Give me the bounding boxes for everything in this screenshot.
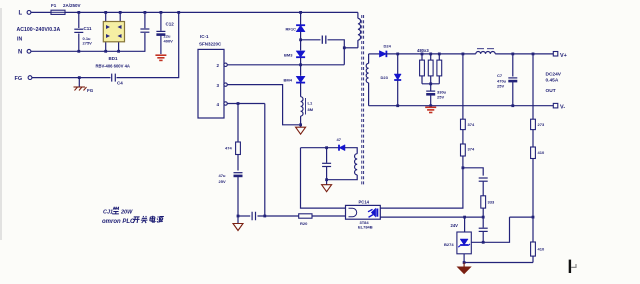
wire to drain: [300, 58, 302, 76]
svg-text:D24: D24: [384, 44, 392, 49]
svg-text:3: 3: [217, 83, 220, 88]
diode D47: [339, 145, 345, 151]
ground primary DC bus: [155, 54, 166, 56]
svg-text:474: 474: [225, 146, 232, 151]
wire FG line: [32, 77, 111, 79]
svg-text:8M: 8M: [308, 107, 314, 112]
transformer T1 aux: [355, 154, 358, 175]
ground primary return: [237, 216, 239, 224]
capacitor series bottom: [251, 212, 253, 221]
ground aux: [322, 185, 332, 192]
svg-text:RBV-406 600V 4A: RBV-406 600V 4A: [96, 64, 130, 69]
inductor L1: [301, 97, 303, 116]
svg-text:C7: C7: [497, 73, 503, 78]
wire vcc feedback branch: [264, 104, 266, 217]
svg-text:DC24V: DC24V: [546, 72, 562, 78]
wire primary bottom rail: [238, 215, 250, 217]
wire L1 bottom: [300, 116, 302, 127]
wire secondary bottom rail: [369, 105, 554, 107]
svg-text:374: 374: [468, 147, 475, 152]
svg-text:FG: FG: [15, 76, 23, 82]
svg-text:L: L: [19, 11, 23, 17]
svg-text:24V: 24V: [451, 223, 459, 228]
svg-text:275V: 275V: [83, 41, 93, 46]
svg-text:374: 374: [468, 122, 475, 127]
svg-text:20W: 20W: [120, 210, 133, 216]
svg-text:BM3: BM3: [284, 53, 293, 58]
edge artifact: [0, 8, 2, 240]
snubber capacitor: [301, 39, 321, 41]
capacitor comp2: [482, 217, 484, 227]
svg-text:IN: IN: [17, 37, 22, 43]
transformer T1 secondary: [368, 54, 370, 64]
wire primary coil bottom link: [344, 47, 358, 49]
svg-text:D23: D23: [381, 75, 389, 80]
wire pin4 feedback: [227, 103, 264, 105]
ground L1: [296, 127, 306, 134]
svg-text:B274: B274: [444, 242, 454, 247]
svg-text:omron PLC: omron PLC: [102, 219, 135, 225]
wire secondary top rail: [386, 53, 475, 55]
transformer core: [361, 15, 363, 186]
svg-text:410: 410: [538, 247, 545, 252]
divider right column: [532, 54, 534, 119]
bridge rectifier BD1: [105, 12, 107, 21]
svg-text:EL784B: EL784B: [358, 225, 373, 230]
resistor R20: [299, 214, 312, 218]
wire opto out bottom: [380, 216, 483, 218]
chassis ground FG: [78, 78, 80, 87]
svg-text:V-: V-: [560, 105, 565, 111]
wire N rail: [31, 50, 145, 52]
svg-text:400V: 400V: [164, 39, 174, 44]
resistor 374 lower: [461, 144, 466, 156]
output inductor L2: [476, 51, 495, 53]
svg-text:AC100~240V/0.3A: AC100~240V/0.3A: [17, 27, 61, 33]
wire pin2 to drain node: [227, 64, 344, 66]
diode RF1C: [300, 12, 302, 25]
svg-text:V+: V+: [560, 53, 567, 59]
resistor 273: [531, 119, 536, 129]
resistor 374 upper: [461, 119, 466, 129]
svg-text:L1: L1: [308, 101, 313, 106]
resistor R474: [237, 104, 239, 143]
svg-text:0.45A: 0.45A: [546, 78, 559, 84]
svg-text:R20: R20: [300, 221, 308, 226]
transformer T1 primary: [357, 12, 359, 18]
terminal V+: [553, 52, 558, 57]
wire pin3 to primary return: [227, 85, 299, 125]
cursor mark: [569, 260, 571, 273]
capacitor C4 Y-cap: [111, 74, 113, 82]
svg-text:25V: 25V: [219, 179, 226, 184]
capacitor C12 electrolytic: [160, 12, 162, 30]
svg-text:IC-1: IC-1: [200, 34, 209, 39]
svg-text:BM4: BM4: [284, 78, 293, 83]
compensation RC: [463, 168, 483, 176]
diode BM3: [296, 51, 305, 57]
svg-text:410: 410: [538, 150, 545, 155]
shunt regulator B274: [464, 217, 466, 232]
svg-text:2A/250V: 2A/250V: [63, 3, 81, 8]
diode BM4: [296, 76, 305, 82]
capacitor 330u: [430, 84, 432, 91]
wire regulator bottom: [464, 254, 533, 263]
resistor 410 upper: [531, 147, 536, 159]
svg-text:47u: 47u: [219, 173, 226, 178]
svg-text:FG: FG: [87, 88, 94, 93]
capacitor C13 film: [144, 12, 146, 28]
wire L rail: [65, 11, 358, 13]
zener D23: [397, 54, 399, 74]
svg-text:SFN3220C: SFN3220C: [199, 42, 222, 47]
svg-text:BD1: BD1: [109, 56, 118, 61]
capacitor 47u: [234, 172, 243, 174]
resistor 410 lower: [531, 242, 536, 256]
resistor 333: [481, 196, 486, 208]
svg-text:480x3: 480x3: [417, 48, 429, 53]
capacitor C11: [78, 12, 80, 28]
capacitor aux: [326, 148, 328, 163]
wire to L1: [300, 83, 302, 97]
wire opto feed divider: [462, 54, 464, 119]
svg-text:25V: 25V: [497, 84, 504, 89]
svg-text:2: 2: [217, 63, 220, 68]
svg-text:4: 4: [217, 102, 220, 107]
svg-text:CJ1: CJ1: [103, 210, 113, 216]
wire ref: [471, 217, 509, 242]
svg-text:C4: C4: [117, 81, 123, 86]
svg-text:47: 47: [337, 137, 342, 142]
svg-text:RF1C: RF1C: [286, 27, 297, 32]
ground secondary: [425, 106, 436, 108]
capacitor 470u output: [512, 54, 514, 77]
diode D24: [369, 53, 380, 55]
wire snubber node: [300, 32, 302, 51]
svg-text:C12: C12: [166, 22, 175, 27]
svg-text:C11: C11: [84, 26, 93, 31]
fuse F1: [31, 11, 51, 13]
svg-text:PC14: PC14: [359, 200, 370, 205]
svg-text:N: N: [18, 50, 22, 56]
svg-text:273: 273: [538, 122, 545, 127]
wire aux vcc: [301, 147, 339, 149]
svg-text:333: 333: [488, 200, 495, 205]
svg-text:OUT: OUT: [546, 88, 556, 94]
svg-text:F1: F1: [51, 3, 57, 8]
ground regulator: [463, 263, 465, 268]
terminal V-: [553, 103, 558, 108]
wire aux to opto: [301, 148, 346, 208]
svg-text:25V: 25V: [437, 95, 444, 100]
wire V+ rail: [495, 53, 553, 55]
